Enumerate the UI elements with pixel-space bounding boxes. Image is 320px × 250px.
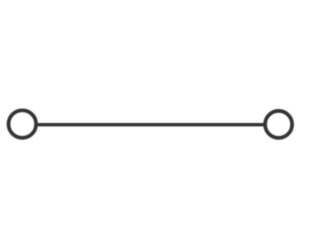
terminal 2 (265, 111, 292, 138)
wire (36, 123, 266, 126)
terminal 1 (8, 110, 36, 138)
